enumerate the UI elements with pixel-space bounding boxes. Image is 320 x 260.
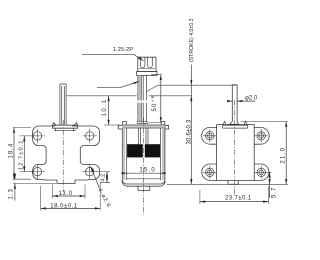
svg-text:21.0: 21.0 bbox=[280, 147, 286, 164]
right hole bottom-left bbox=[206, 168, 214, 176]
right view shaft bbox=[232, 85, 237, 122]
svg-text:13.0: 13.0 bbox=[59, 191, 73, 197]
right ear top-right bbox=[254, 127, 269, 144]
right view centerline bbox=[234, 100, 236, 196]
leader 4-ø2.6 bbox=[91, 167, 100, 189]
dimension 21.0 bbox=[241, 121, 288, 123]
coil black band bbox=[127, 144, 143, 157]
30.6 dimension line bbox=[190, 96, 192, 185]
top tab left bbox=[123, 122, 127, 126]
hole top-left bbox=[33, 132, 41, 140]
dimension 50 wire length bbox=[149, 75, 162, 123]
right ear bottom-left bbox=[202, 164, 217, 180]
svg-text:12.7±0.1: 12.7±0.1 bbox=[19, 139, 25, 170]
right view collar bbox=[223, 125, 248, 128]
right ear top-left bbox=[202, 127, 217, 144]
svg-text:23.7±0.1: 23.7±0.1 bbox=[225, 195, 252, 201]
svg-text:10.1: 10.1 bbox=[102, 98, 108, 116]
lead wire shade bbox=[138, 75, 141, 121]
right view body bbox=[217, 125, 255, 181]
svg-text:5.7: 5.7 bbox=[272, 187, 278, 198]
left view washer shade bbox=[58, 124, 69, 125]
body bottom tab bbox=[138, 186, 150, 190]
bottom reference line bbox=[167, 183, 288, 185]
left view centerline bbox=[62, 120, 64, 192]
leader to wires bbox=[97, 82, 139, 88]
hole bottom-right bbox=[86, 167, 94, 175]
line B plunger rest bbox=[67, 95, 193, 97]
left view plate outline bbox=[33, 126, 100, 184]
left view washer wings bbox=[53, 123, 78, 126]
svg-text:4.2: 4.2 bbox=[101, 174, 107, 182]
collar wings bbox=[223, 121, 248, 125]
dimension 15.0 bbox=[123, 172, 165, 174]
dimension 10.1 bbox=[104, 124, 119, 126]
right hole bottom-right bbox=[257, 168, 265, 176]
body top plate bbox=[122, 125, 165, 128]
stroke dimension line bbox=[190, 65, 192, 86]
wire break gap bbox=[137, 100, 147, 102]
side tab left bbox=[118, 125, 122, 129]
leader 1.25-2P bbox=[82, 54, 144, 61]
bobbin inner walls bbox=[127, 128, 161, 180]
connector slots bbox=[140, 57, 152, 68]
center view centerline bbox=[143, 118, 145, 215]
body top shade bbox=[122, 125, 165, 127]
svg-text:(STROKE) 4.0±0.3: (STROKE) 4.0±0.3 bbox=[189, 18, 195, 62]
top tab right bbox=[161, 122, 165, 126]
dimension 1.3 bbox=[13, 183, 56, 185]
svg-text:1.25-2P: 1.25-2P bbox=[113, 47, 133, 53]
side tab right bbox=[165, 125, 169, 129]
right view bottom tab bbox=[228, 181, 238, 185]
line A plunger extended bbox=[147, 85, 237, 91]
left view plunger column bbox=[60, 84, 66, 124]
body side walls bbox=[122, 128, 165, 183]
svg-text:φ2.0: φ2.0 bbox=[245, 95, 258, 101]
hole bottom-left bbox=[33, 167, 41, 175]
svg-text:1.3: 1.3 bbox=[9, 188, 15, 199]
svg-text:18.0±0.1: 18.0±0.1 bbox=[50, 204, 77, 210]
left view washer plate bbox=[53, 125, 78, 128]
right ear bottom-right bbox=[254, 164, 269, 180]
wire collar bbox=[137, 122, 149, 124]
right hole top-right bbox=[257, 132, 265, 140]
right hole top-left bbox=[206, 132, 214, 140]
dimension 18.0±0.1 bbox=[41, 182, 100, 211]
dimension 12.7±0.1 bbox=[20, 136, 33, 172]
dimension 5.7 bbox=[269, 172, 271, 184]
left view legs bbox=[54, 128, 76, 131]
shaft base pad bbox=[230, 122, 239, 126]
dimension 4.2 bbox=[96, 172, 110, 183]
dimension 23.7±0.1 bbox=[200, 186, 269, 204]
svg-text:15.0: 15.0 bbox=[139, 168, 155, 174]
connector inner line bbox=[139, 68, 156, 70]
body bottom bracket bbox=[122, 180, 165, 184]
svg-text:30.6±0.3: 30.6±0.3 bbox=[186, 119, 192, 144]
dimension phi2.0 bbox=[228, 100, 233, 102]
dimension 18.4 bbox=[13, 128, 31, 180]
plunger in body bbox=[139, 128, 149, 144]
svg-text:18.4: 18.4 bbox=[8, 143, 14, 159]
side wall shades bbox=[123, 128, 125, 180]
dimension 13.0 bbox=[53, 185, 86, 199]
hole top-right bbox=[86, 132, 94, 140]
connector flange bbox=[137, 72, 157, 76]
connector box bbox=[138, 57, 156, 71]
lead wires bbox=[138, 75, 147, 121]
